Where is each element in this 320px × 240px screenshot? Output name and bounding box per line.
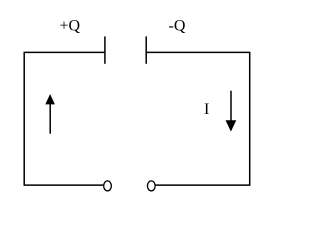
svg-text:-Q: -Q (169, 18, 186, 35)
svg-text:+Q: +Q (60, 18, 81, 35)
wire bottom right segment (155, 184, 250, 186)
capacitor C1 right plate (-Q) (145, 36, 147, 63)
capacitor C1 left plate (+Q) (104, 36, 106, 63)
wire bottom left segment (24, 184, 104, 186)
terminal right open circle (147, 181, 155, 191)
current arrow left (upward) (45, 94, 55, 134)
wire top right segment (146, 51, 250, 53)
wire right vertical (249, 52, 251, 185)
wire top left segment (24, 51, 105, 53)
svg-text:I: I (204, 101, 209, 118)
terminal left open circle (104, 181, 112, 191)
current arrow right (downward) (226, 91, 237, 132)
wire left vertical (23, 52, 25, 185)
